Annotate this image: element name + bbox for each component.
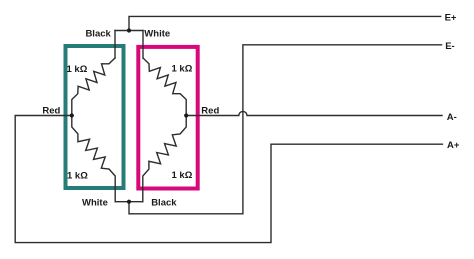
wire white lead into magenta box (142, 31, 144, 59)
node bottom junction (127, 200, 131, 204)
wire red lead left to A+ loop (15, 116, 442, 243)
wire bottom junction bar (115, 201, 143, 203)
resistor R2 teal bottom 1 kOhm (72, 116, 115, 202)
svg-text:White: White (82, 197, 108, 208)
wire E+ line (129, 16, 441, 30)
resistor R4 magenta bottom 1 kOhm (143, 116, 186, 202)
node magenta red terminal (184, 113, 188, 117)
svg-text:1 kΩ: 1 kΩ (172, 64, 193, 75)
svg-text:1 kΩ: 1 kΩ (172, 170, 193, 181)
resistor R1 teal top 1 kOhm (72, 58, 115, 116)
svg-text:A-: A- (447, 112, 457, 123)
wire top junction bar (115, 30, 143, 32)
load cell 1 body (teal box) (66, 46, 124, 188)
resistor R3 magenta top 1 kOhm (143, 58, 186, 116)
svg-text:Black: Black (85, 29, 111, 40)
svg-text:1 kΩ: 1 kΩ (67, 171, 88, 182)
wire black lead into teal box (114, 31, 116, 59)
svg-text:Red: Red (201, 105, 219, 116)
svg-text:A+: A+ (447, 140, 460, 151)
wire bottom junction to E- riser (129, 45, 442, 214)
svg-text:E+: E+ (445, 12, 457, 23)
svg-text:White: White (144, 29, 170, 40)
wire A- line with hop over E- riser (186, 111, 442, 115)
node top junction (127, 28, 131, 32)
node teal red terminal (70, 113, 74, 117)
svg-text:1 kΩ: 1 kΩ (67, 64, 88, 75)
svg-text:Red: Red (42, 106, 60, 117)
svg-text:E-: E- (445, 41, 455, 52)
svg-text:Black: Black (151, 197, 177, 208)
load cell 2 body (magenta box) (138, 47, 197, 189)
